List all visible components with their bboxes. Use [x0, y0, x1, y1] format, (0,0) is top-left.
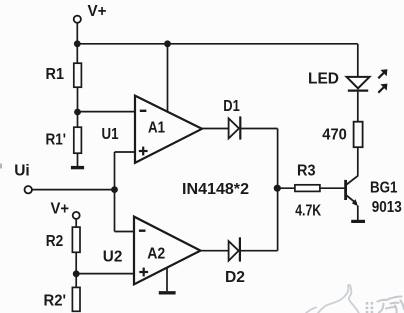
terminal V+ top: [74, 3, 107, 23]
wire D1 to right corner: [240, 128, 277, 130]
node junction top-left: [74, 40, 81, 47]
svg-text:R1': R1': [46, 132, 67, 149]
wire A1 power pin: [167, 44, 169, 112]
resistor R3: [295, 163, 322, 220]
wire R1 to node: [77, 87, 79, 112]
svg-text:470: 470: [322, 127, 347, 144]
wire node to A2 non-inverting input: [76, 273, 135, 275]
resistor R1': [46, 127, 82, 153]
wire node to A1 inverting input: [78, 111, 137, 113]
wire collector up to 470: [357, 147, 359, 176]
resistor 470: [322, 122, 362, 148]
svg-text:V+: V+: [88, 3, 107, 20]
svg-text:A2: A2: [147, 246, 165, 263]
wire A1 output to D1: [202, 128, 229, 130]
svg-text:Ui: Ui: [14, 163, 30, 180]
ground below emitter: [351, 220, 365, 223]
wire D2 to vertical bus: [240, 250, 278, 252]
resistor R2: [46, 227, 80, 252]
wire vertical D1/D2 bus: [277, 129, 279, 251]
svg-text:A1: A1: [148, 120, 165, 137]
transistor Q BG1 9013: [346, 176, 402, 216]
svg-text:U2: U2: [103, 249, 123, 266]
svg-text:R2: R2: [46, 233, 64, 250]
A2 plus sign: [139, 268, 148, 277]
wire LED to 470: [357, 92, 359, 122]
LED diode: [308, 71, 370, 91]
LED arrow 1: [378, 69, 387, 78]
wire A2 ground pin: [166, 268, 168, 291]
svg-text:U1: U1: [102, 126, 119, 143]
node junction rail A1 power: [164, 40, 171, 47]
node junction Ui: [111, 186, 118, 193]
wire A2 output to D2: [201, 250, 229, 252]
svg-text:D2: D2: [225, 269, 245, 286]
svg-text:D1: D1: [223, 98, 240, 115]
watermark dots: [366, 302, 374, 313]
wire emitter down: [357, 206, 359, 221]
LED arrow 2: [378, 84, 387, 93]
edge artifact left: [0, 164, 2, 169]
svg-text:R3: R3: [297, 163, 316, 180]
resistor R1: [46, 63, 82, 87]
ground below A2: [159, 291, 176, 294]
svg-text:R2': R2': [44, 293, 67, 310]
diode D2: [225, 237, 245, 286]
wire rail to R1: [76, 44, 78, 63]
svg-text:9013: 9013: [372, 199, 402, 216]
op-amp U2 A2: [103, 217, 201, 285]
wire rail corner down to LED: [357, 44, 359, 77]
wire top rail: [77, 43, 357, 45]
svg-text:BG1: BG1: [370, 180, 398, 197]
terminal V+ bottom: [51, 201, 80, 219]
svg-text:R1: R1: [46, 66, 65, 83]
node junction R1/R1': [74, 109, 81, 116]
diode D1: [223, 98, 240, 140]
A1 plus sign: [139, 147, 148, 156]
wire to A2 inverting input: [115, 231, 136, 233]
wire Ui to node: [32, 189, 114, 191]
watermark logo swoosh: [306, 285, 359, 313]
A1 minus sign: [140, 110, 147, 112]
wire R2 to node: [75, 252, 77, 274]
wire V+ stub down: [76, 23, 78, 44]
node junction R3 tap: [274, 185, 281, 192]
node junction R2/R2': [73, 270, 80, 277]
wire node to R3: [278, 187, 295, 189]
watermark character strokes: [378, 297, 404, 313]
resistor R2': [44, 287, 81, 311]
wire to A1 non-inverting input: [115, 151, 137, 153]
terminal Ui: [14, 163, 32, 194]
wire R1' to ground: [77, 153, 79, 166]
op-amp U1 A1: [102, 96, 203, 163]
svg-text:4.7K: 4.7K: [295, 203, 321, 220]
wire Ui node vertical: [114, 152, 116, 232]
wire node to R2': [75, 274, 77, 287]
ground below R1': [71, 166, 84, 169]
wire V+ to R2: [75, 219, 77, 227]
svg-text:IN4148*2: IN4148*2: [182, 181, 249, 198]
wire R3 to BG1 base: [320, 187, 345, 189]
A2 minus sign: [139, 229, 146, 231]
wire node to R1': [77, 112, 79, 127]
svg-text:V+: V+: [51, 201, 70, 218]
svg-text:LED: LED: [308, 71, 339, 88]
